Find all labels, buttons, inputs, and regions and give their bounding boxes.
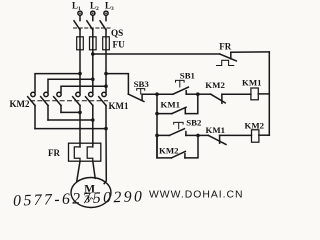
FR heater element 1 — [74, 147, 80, 161]
wire L1 down through fuse — [79, 29, 81, 92]
motor 3~ label — [85, 194, 96, 206]
contactor KM2 main contact 1 — [28, 92, 36, 128]
junction rung1 latch — [196, 92, 200, 96]
terminal L3 — [104, 11, 108, 15]
wire bus to SB1 — [157, 93, 173, 95]
wire SB1 to junction — [186, 93, 198, 95]
junction bus rung2 — [155, 134, 159, 138]
wire junction to KM2 interlock — [198, 93, 211, 95]
junction crossover B — [91, 118, 95, 122]
svg-text:SB3: SB3 — [134, 79, 150, 89]
coil KM2 — [252, 130, 259, 142]
junction crossover C — [104, 127, 108, 131]
coil KM1 — [251, 88, 258, 100]
contactor KM2 main contact 3 — [54, 92, 62, 112]
svg-text:KM2: KM2 — [10, 99, 30, 109]
contact KM1 NO latch — [172, 107, 186, 113]
wire KM1 latch riser — [185, 94, 198, 113]
wire rail2 L2 to KM2 contact2 — [48, 79, 93, 92]
thermal relay FR heater box — [69, 143, 101, 161]
wire KM2 latch riser — [185, 135, 198, 158]
wire coil KM1 to right bus — [258, 93, 269, 95]
svg-text:SB2: SB2 — [186, 117, 202, 127]
junction L3 tap — [104, 72, 108, 76]
KM1 bank label — [109, 101, 129, 111]
svg-text:SB1: SB1 — [180, 71, 195, 81]
wire coil KM2 to right bus — [259, 134, 269, 136]
thermal relay FR NC contact — [217, 52, 237, 65]
wire rail1 L1 to KM2 contact1 — [35, 74, 80, 93]
wire SB2 to junction — [186, 134, 198, 136]
junction L1 rail1 — [78, 72, 82, 76]
KM2 interlock label — [205, 80, 225, 90]
fuse FU 2 — [90, 37, 97, 50]
svg-text:KM1: KM1 — [109, 101, 129, 111]
wire junction to KM1 interlock — [198, 134, 208, 136]
control bus vertical — [156, 94, 158, 158]
junction rung2 latch — [196, 134, 200, 138]
start button SB1 NO — [173, 80, 189, 94]
wire crossover out2 to phase2 — [48, 119, 93, 121]
terminal L2 — [91, 11, 95, 15]
wire KM1 interlock to coil KM2 — [220, 134, 252, 136]
contactor KM1 main contact 2 — [86, 92, 94, 147]
stop button SB3 NC — [128, 89, 144, 102]
contactor KM1 main contact 1 — [73, 92, 81, 147]
fuse FU 3 — [103, 37, 110, 50]
contact KM1 NC interlock — [208, 135, 226, 144]
contact KM2 NC interlock — [211, 94, 226, 103]
wire bus to KM1 latch — [157, 113, 172, 115]
svg-text:KM2: KM2 — [159, 145, 179, 155]
terminal L1 — [78, 11, 82, 15]
switch QS pole 2 — [87, 15, 93, 29]
wire rail3 L3 to KM2 contact3 — [61, 86, 106, 92]
wire L3 to motor W — [104, 129, 106, 184]
FR contact label — [219, 41, 231, 51]
SB3 label — [134, 79, 150, 89]
svg-text:FU: FU — [113, 40, 126, 50]
coil KM2 label — [245, 121, 265, 131]
svg-text:0577-62750290: 0577-62750290 — [13, 188, 145, 210]
KM1 latch label — [161, 100, 181, 110]
wire crossover out1 to phase3 — [35, 128, 106, 130]
svg-text:L2: L2 — [90, 1, 99, 13]
FR box label — [48, 148, 60, 158]
junction bus rung1 — [155, 92, 159, 96]
svg-text:KM1: KM1 — [161, 100, 181, 110]
switch QS pole 3 — [100, 15, 106, 29]
node L2 label — [90, 1, 99, 13]
junction L3 rail3 — [104, 84, 108, 88]
node L1 label — [72, 1, 81, 13]
wire control tap from L2 to FR contact — [93, 53, 220, 55]
node L3 label — [105, 1, 114, 13]
wire FR to right bus corner — [231, 51, 269, 53]
right bus wire — [268, 52, 270, 135]
junction L2 rail2 — [91, 78, 95, 82]
svg-text:3~: 3~ — [85, 194, 96, 206]
wire SB3 to bus — [142, 93, 157, 95]
motor M label — [84, 184, 95, 196]
SB1 label — [180, 71, 195, 81]
main contacts linkage dashed — [31, 100, 108, 102]
junction crossover A — [78, 111, 82, 115]
watermark website — [149, 190, 244, 201]
KM1 interlock label — [206, 125, 226, 135]
junction bus latch1 — [155, 112, 159, 116]
wire tap L3 to SB3 — [106, 74, 128, 95]
svg-text:KM2: KM2 — [205, 80, 225, 90]
wire bus to SB2 — [157, 134, 169, 136]
start button SB2 NO — [169, 122, 186, 135]
svg-text:KM2: KM2 — [245, 121, 265, 131]
svg-text:FR: FR — [219, 41, 231, 51]
fuse FU 1 — [77, 37, 84, 50]
wire FR to motor V — [93, 161, 95, 178]
svg-text:KM1: KM1 — [242, 77, 262, 87]
wire crossover out3 to phase1 — [61, 111, 80, 113]
contact KM2 NO latch — [171, 151, 185, 158]
junction L2 control tap — [91, 52, 95, 56]
FR heater element 2 — [87, 147, 93, 161]
KM2 latch label — [159, 145, 179, 155]
QS linkage dashed — [74, 27, 111, 29]
contactor KM2 main contact 2 — [41, 92, 49, 120]
motor M circle — [71, 178, 111, 208]
QS label — [111, 28, 123, 38]
watermark phone number — [13, 188, 145, 210]
wire KM2 interlock to coil KM1 — [222, 93, 251, 95]
svg-text:FR: FR — [48, 148, 60, 158]
SB2 label — [186, 117, 202, 127]
svg-text:WWW.DOHAI.CN: WWW.DOHAI.CN — [149, 190, 244, 201]
contactor KM1 main contact 3 — [99, 92, 107, 128]
svg-text:KM1: KM1 — [206, 125, 226, 135]
wire L2 down through fuse — [92, 29, 94, 92]
wire L3 down through fuse — [105, 29, 107, 92]
coil KM1 label — [242, 77, 262, 87]
wire bus corner to KM2 latch — [157, 135, 171, 158]
svg-text:QS: QS — [111, 28, 123, 38]
switch QS pole 1 — [74, 15, 80, 29]
KM2 bank label — [10, 99, 30, 109]
FU label — [113, 40, 126, 50]
wire FR to motor U — [77, 161, 80, 181]
